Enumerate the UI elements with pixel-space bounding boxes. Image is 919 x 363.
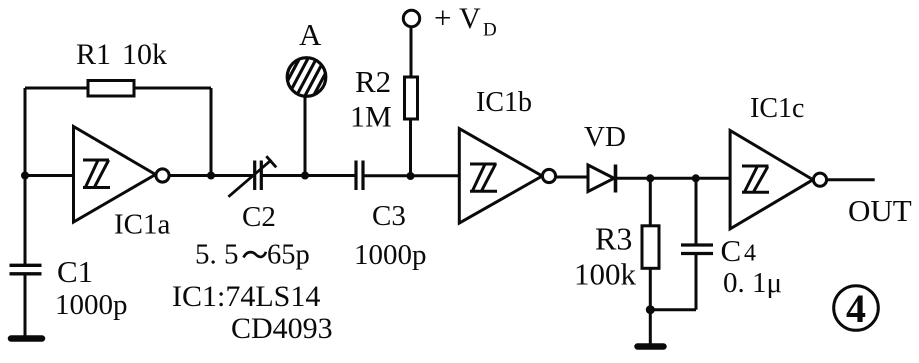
wire: C4 upper lead [695,178,698,244]
svg-text:CD4093: CD4093 [231,312,333,345]
op-amp U1 IC1a schmitt inverter triangle [74,127,156,223]
IC1c output bubble [813,173,826,186]
node: feedback junction [207,172,215,180]
resistor R2 [405,77,418,119]
ground (C1) [11,335,42,342]
figure number circled 4 [834,286,879,331]
svg-text:5. 5: 5. 5 [195,239,239,271]
terminal +VD circle [403,10,419,26]
label R1 10k [76,38,167,71]
capacitor C1 plates [10,265,42,274]
node: R2 junction [407,172,415,180]
svg-text:0. 1μ: 0. 1μ [723,267,782,299]
wire: input to IC1a [25,174,74,177]
svg-text:IC1b: IC1b [476,87,532,118]
svg-text:IC1:74LS14: IC1:74LS14 [172,280,320,313]
op-amp U1 IC1c schmitt inverter triangle [730,131,813,229]
svg-text:A: A [299,17,322,52]
svg-text:C: C [721,233,742,268]
resistor R1 [88,81,134,97]
node: R3 junction [646,174,654,182]
svg-text:C3: C3 [372,200,406,232]
wire: left input node vertical rail [24,88,27,265]
node: input junction [21,172,29,180]
wire: IC1a output to C2 [169,174,253,177]
svg-text:100k: 100k [574,257,637,292]
svg-text:1000p: 1000p [55,289,128,321]
wire: R3 upper lead [649,178,652,226]
node A junction [301,172,309,180]
capacitor C2 trimmer arrow [228,156,276,197]
wire: node A riser [304,96,307,176]
capacitor C3 plates [356,161,363,191]
IC1a hysteresis symbol [83,159,110,187]
svg-text:IC1c: IC1c [750,93,804,124]
wire: diode to IC1c [616,177,731,180]
svg-text:R1: R1 [76,38,111,71]
svg-text:10k: 10k [122,38,167,71]
IC1a output bubble [156,169,169,182]
svg-text:D: D [483,20,497,41]
svg-text:4: 4 [846,286,866,331]
svg-text:IC1a: IC1a [114,209,171,241]
diode VD [588,165,616,193]
svg-text:1M: 1M [350,101,392,134]
antenna pad A hatched circle [282,48,332,106]
wire: R2 lower lead [409,119,412,176]
wire: R2 upper lead [410,27,413,78]
capacitor C2 variable plates [255,161,262,191]
wire: feedback loop top horizontal [25,87,211,90]
label +VD [434,0,497,41]
ground (R3) [638,343,664,350]
IC1b output bubble [542,169,555,182]
svg-text:C1: C1 [57,254,93,289]
svg-text:4: 4 [744,241,756,267]
wire: R3 lower lead to ground [649,268,652,345]
svg-text:R2: R2 [355,64,391,99]
wire: C2 to C3 [261,174,355,177]
node: C4 junction [692,174,700,182]
wire: IC1b to diode [556,176,588,179]
node: R3/C4 bottom junction [646,305,655,314]
svg-text:65p: 65p [267,240,310,271]
op-amp U1 IC1b schmitt inverter triangle [459,129,542,224]
wire: C3 to IC1b [363,174,459,177]
svg-text:V: V [459,2,481,35]
svg-text:1000p: 1000p [354,239,427,271]
wire: feedback loop right vertical [210,88,213,176]
wire: C1 lower lead [24,274,27,336]
svg-text:R3: R3 [595,221,632,257]
svg-text:+: + [434,0,451,35]
svg-text:C2: C2 [242,201,276,233]
svg-text:OUT: OUT [848,193,912,228]
resistor R3 [642,226,659,268]
wire: output [827,178,875,181]
wire: C4 lower lead [695,254,698,310]
wire: bottom link to C4 [650,308,696,311]
IC1c hysteresis symbol [742,166,769,192]
IC1b hysteresis symbol [470,163,497,191]
svg-text:VD: VD [584,121,626,153]
capacitor C4 plates [681,245,713,254]
